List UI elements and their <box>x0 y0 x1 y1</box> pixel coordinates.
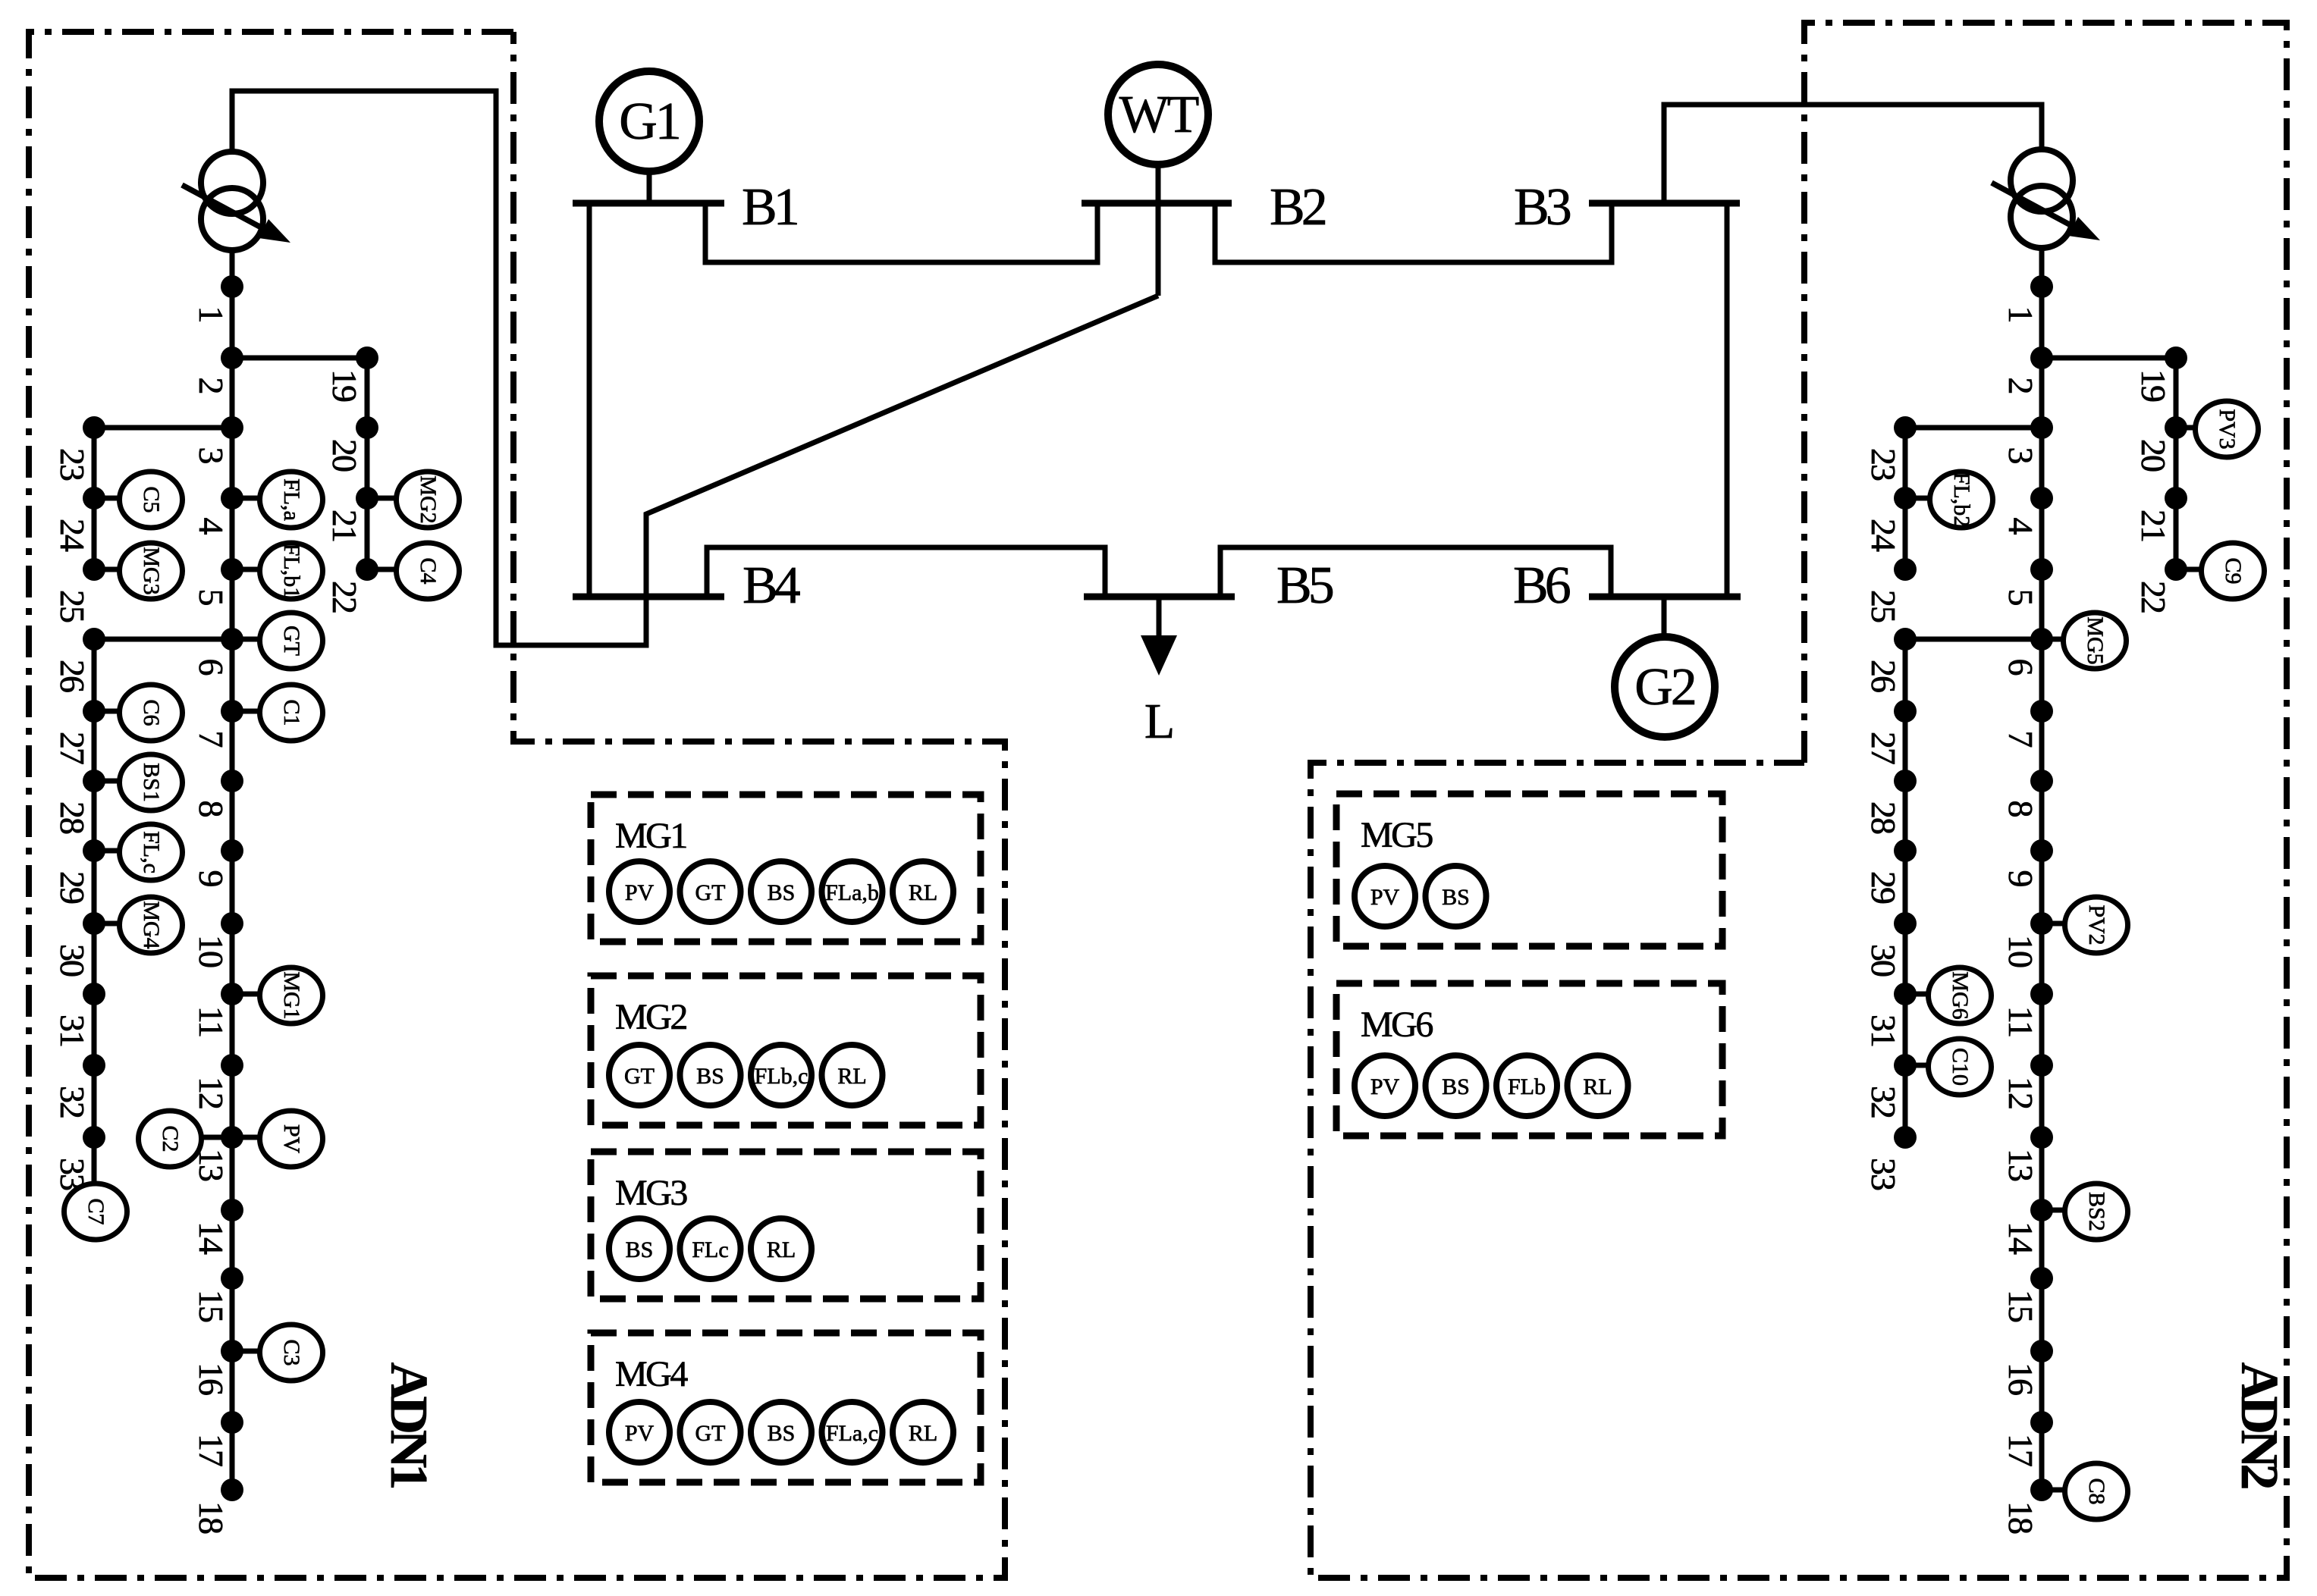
svg-text:FL,c: FL,c <box>139 831 164 873</box>
node 23 <box>83 416 105 439</box>
svg-text:BS: BS <box>768 880 796 905</box>
svg-text:BS1: BS1 <box>139 763 164 802</box>
node 9 <box>221 839 243 862</box>
node 18 <box>221 1478 243 1501</box>
wire B3 to ADN2 feed <box>1664 105 2042 203</box>
svg-text:MG4: MG4 <box>139 901 164 949</box>
node 4 <box>221 487 243 510</box>
node 20 <box>2165 416 2187 439</box>
svg-text:20: 20 <box>2134 439 2173 472</box>
wire tie B3-B6 <box>1725 203 1730 597</box>
svg-text:10: 10 <box>2001 935 2040 967</box>
node 22 <box>356 558 378 581</box>
svg-text:28: 28 <box>1864 801 1903 834</box>
svg-text:11: 11 <box>192 1006 231 1036</box>
svg-text:8: 8 <box>192 801 231 817</box>
svg-text:27: 27 <box>53 732 92 764</box>
svg-text:19: 19 <box>325 369 364 402</box>
node 12 <box>221 1054 243 1077</box>
node 7 <box>221 700 243 723</box>
node 30 <box>1894 912 1917 935</box>
svg-text:16: 16 <box>192 1362 231 1395</box>
svg-text:22: 22 <box>325 581 364 613</box>
wire node2 to node19 <box>232 356 367 361</box>
svg-text:FLa,c: FLa,c <box>826 1421 878 1446</box>
svg-text:17: 17 <box>2001 1434 2040 1466</box>
ADN2 region dash-dot boundary <box>1311 23 2287 1578</box>
load FL,b1 at node 5 <box>260 543 323 599</box>
component C3 at node 16 <box>260 1325 323 1381</box>
node 6 <box>2030 628 2053 651</box>
svg-text:28: 28 <box>53 801 92 834</box>
node 21 <box>356 487 378 510</box>
microgrid MG5 detail box <box>1336 794 1722 946</box>
component C10 at node 32 <box>1929 1039 1992 1095</box>
bus B5 <box>1084 594 1235 600</box>
svg-text:4: 4 <box>2001 518 2040 535</box>
node 33 <box>83 1126 105 1149</box>
wire node3 to node23 <box>94 425 232 431</box>
svg-text:5: 5 <box>192 589 231 606</box>
wire tie B1-B4 <box>587 203 592 597</box>
wire tie B2-B3 <box>1215 203 1612 262</box>
microgrid MG6 detail box <box>1336 983 1722 1136</box>
node 11 <box>221 983 243 1005</box>
node 11 <box>2030 983 2053 1005</box>
node 32 <box>83 1054 105 1077</box>
node 17 <box>2030 1411 2053 1434</box>
svg-text:C6: C6 <box>139 699 164 726</box>
node 5 <box>221 558 243 581</box>
bus B3 <box>1589 200 1740 207</box>
node 28 <box>83 770 105 792</box>
node 2 <box>2030 346 2053 369</box>
wire branch 19-22 <box>365 358 370 569</box>
component C1 at node 7 <box>260 685 323 741</box>
svg-text:26: 26 <box>53 660 92 692</box>
microgrid MG3 at node 25 <box>120 543 183 599</box>
wire B2 diagonal to B4 and ADN1 feed <box>232 91 1158 645</box>
node 28 <box>1894 770 1917 792</box>
svg-text:1: 1 <box>2001 306 2040 322</box>
svg-text:PV2: PV2 <box>2084 905 2109 945</box>
svg-text:15: 15 <box>2001 1290 2040 1322</box>
svg-text:16: 16 <box>2001 1362 2040 1395</box>
svg-text:14: 14 <box>192 1221 231 1255</box>
svg-text:PV: PV <box>279 1124 304 1154</box>
svg-text:21: 21 <box>325 510 364 541</box>
svg-text:B2: B2 <box>1270 178 1326 237</box>
svg-text:PV: PV <box>1370 1074 1400 1099</box>
load FL,a at node 4 <box>260 472 323 528</box>
wire branch 23-25 <box>92 428 97 569</box>
wire tie B4-B5 <box>707 547 1105 597</box>
svg-text:9: 9 <box>192 870 231 887</box>
microgrid MG2 at node 21 <box>397 472 460 528</box>
svg-text:BS: BS <box>696 1064 724 1089</box>
svg-text:22: 22 <box>2134 581 2173 613</box>
svg-text:C2: C2 <box>158 1125 183 1152</box>
svg-text:C8: C8 <box>2084 1478 2109 1504</box>
wire node6 to node26 <box>94 637 232 642</box>
component C4 at node 22 <box>397 543 460 599</box>
svg-text:29: 29 <box>53 871 92 904</box>
svg-text:FL,b1: FL,b1 <box>279 544 304 599</box>
svg-text:18: 18 <box>2001 1501 2040 1534</box>
svg-text:C9: C9 <box>2221 557 2246 584</box>
svg-text:MG6: MG6 <box>1361 1005 1433 1045</box>
svg-text:BS: BS <box>1442 1074 1470 1099</box>
node 33 <box>1894 1126 1917 1149</box>
svg-text:BS: BS <box>626 1237 654 1262</box>
svg-text:MG6: MG6 <box>1948 971 1973 1019</box>
node 26 <box>83 628 105 651</box>
svg-text:MG5: MG5 <box>2083 616 2108 664</box>
svg-text:C1: C1 <box>279 699 304 726</box>
node 29 <box>1894 839 1917 862</box>
node 16 <box>221 1340 243 1362</box>
svg-text:RL: RL <box>909 1421 937 1446</box>
wire main feeder nodes 1-18 <box>2039 287 2045 1490</box>
wire tie B1-B2 <box>705 203 1097 262</box>
svg-text:MG3: MG3 <box>615 1173 687 1213</box>
svg-text:MG2: MG2 <box>615 997 686 1037</box>
node 31 <box>83 983 105 1005</box>
microgrid MG1 at node 11 <box>260 967 323 1024</box>
svg-text:FLc: FLc <box>692 1237 728 1262</box>
node 20 <box>356 416 378 439</box>
node 16 <box>2030 1340 2053 1362</box>
svg-text:L: L <box>1144 694 1175 749</box>
bus B4 <box>573 594 724 600</box>
svg-text:25: 25 <box>1864 590 1903 622</box>
svg-text:PV: PV <box>625 1421 655 1446</box>
node 24 <box>1894 487 1917 510</box>
photovoltaic PV2 at node 10 <box>2065 897 2128 953</box>
svg-text:18: 18 <box>192 1501 231 1534</box>
node 6 <box>221 628 243 651</box>
svg-text:RL: RL <box>909 880 937 905</box>
svg-text:B4: B4 <box>743 557 800 615</box>
node 22 <box>2165 558 2187 581</box>
node 5 <box>2030 558 2053 581</box>
component C9 at node 22 <box>2202 543 2265 599</box>
svg-text:29: 29 <box>1864 871 1903 904</box>
svg-text:WT: WT <box>1119 86 1199 144</box>
wire node3 to node23 <box>1905 425 2042 431</box>
transformer T2 (ADN2) <box>1992 149 2100 248</box>
node 29 <box>83 839 105 862</box>
node 19 <box>2165 346 2187 369</box>
wire T2 to node 1 <box>2039 249 2045 287</box>
gas turbine GT at node 6 <box>260 613 323 669</box>
svg-text:G1: G1 <box>619 92 680 151</box>
wire tie B5-B6 <box>1220 547 1611 597</box>
svg-text:11: 11 <box>2001 1006 2040 1036</box>
svg-text:MG1: MG1 <box>279 971 304 1019</box>
node 21 <box>2165 487 2187 510</box>
bus B1 <box>573 200 724 207</box>
node 1 <box>221 275 243 298</box>
wire G2 stub to B6 <box>1662 597 1667 634</box>
node 23 <box>1894 416 1917 439</box>
wire node6 to node26 <box>1905 637 2042 642</box>
node 15 <box>2030 1267 2053 1290</box>
svg-text:13: 13 <box>2001 1149 2040 1181</box>
svg-text:32: 32 <box>53 1086 92 1118</box>
svg-text:G2: G2 <box>1634 658 1695 716</box>
microgrid MG2 detail box <box>591 976 981 1125</box>
wire main feeder nodes 1-18 <box>230 287 235 1490</box>
svg-text:12: 12 <box>192 1077 231 1108</box>
svg-text:31: 31 <box>53 1014 92 1046</box>
svg-text:FLb,c: FLb,c <box>755 1064 808 1089</box>
svg-text:26: 26 <box>1864 660 1903 692</box>
svg-text:1: 1 <box>192 306 231 322</box>
svg-text:7: 7 <box>192 731 231 748</box>
svg-text:MG3: MG3 <box>139 547 164 594</box>
microgrid MG4 detail box <box>591 1333 981 1482</box>
svg-text:32: 32 <box>1864 1086 1903 1118</box>
svg-text:B6: B6 <box>1513 557 1570 615</box>
svg-text:FL,b2: FL,b2 <box>1949 472 1974 528</box>
wire branch 19-22 <box>2174 358 2179 569</box>
node 8 <box>2030 770 2053 792</box>
node 10 <box>2030 912 2053 935</box>
svg-text:FLa,b: FLa,b <box>825 880 879 905</box>
svg-text:3: 3 <box>2001 447 2040 464</box>
svg-text:FL,a: FL,a <box>279 478 304 521</box>
load L arrow <box>1157 597 1162 638</box>
svg-text:C4: C4 <box>416 557 441 584</box>
svg-text:14: 14 <box>2001 1221 2040 1255</box>
battery BS2 at node 14 <box>2065 1184 2128 1240</box>
svg-text:ADN1: ADN1 <box>379 1362 438 1488</box>
component C8 at node 18 <box>2065 1463 2128 1519</box>
bus B6 <box>1589 594 1741 600</box>
node 3 <box>221 416 243 439</box>
svg-text:C7: C7 <box>83 1198 108 1224</box>
svg-text:23: 23 <box>53 448 92 481</box>
ADN1 region dash-dot boundary <box>29 32 1005 1578</box>
node 15 <box>221 1267 243 1290</box>
node 31 <box>1894 983 1917 1005</box>
svg-text:30: 30 <box>1864 944 1903 977</box>
node 14 <box>2030 1199 2053 1221</box>
node 25 <box>83 558 105 581</box>
svg-text:21: 21 <box>2134 510 2173 541</box>
svg-text:GT: GT <box>279 626 304 656</box>
svg-text:PV: PV <box>1370 885 1400 910</box>
svg-text:8: 8 <box>2001 801 2040 817</box>
svg-text:BS: BS <box>768 1421 796 1446</box>
node 4 <box>2030 487 2053 510</box>
svg-text:B5: B5 <box>1276 557 1333 615</box>
wind turbine WT circle <box>1108 64 1208 165</box>
svg-text:15: 15 <box>192 1290 231 1322</box>
transformer T1 (ADN1) <box>182 152 290 250</box>
battery BS1 at node 28 <box>120 754 183 811</box>
node 25 <box>1894 558 1917 581</box>
svg-text:23: 23 <box>1864 448 1903 481</box>
node 13 <box>2030 1126 2053 1149</box>
svg-text:4: 4 <box>192 518 231 535</box>
svg-text:MG1: MG1 <box>615 816 686 856</box>
svg-text:6: 6 <box>192 659 231 676</box>
svg-text:2: 2 <box>192 378 231 394</box>
svg-text:C5: C5 <box>139 486 164 513</box>
node 8 <box>221 770 243 792</box>
svg-text:MG2: MG2 <box>416 475 441 523</box>
svg-text:B1: B1 <box>742 178 797 237</box>
microgrid MG5 at node 6 <box>2064 613 2127 669</box>
component C5 at node 24 <box>120 472 183 528</box>
svg-text:2: 2 <box>2001 378 2040 394</box>
wire branch 26-33 <box>1903 639 1908 1137</box>
svg-text:ADN2: ADN2 <box>2230 1362 2288 1488</box>
node 2 <box>221 346 243 369</box>
generator G1 circle <box>599 71 699 171</box>
svg-text:27: 27 <box>1864 732 1903 764</box>
svg-text:MG4: MG4 <box>615 1354 688 1394</box>
load FL,c at node 29 <box>120 824 183 880</box>
svg-text:33: 33 <box>1864 1158 1903 1190</box>
svg-text:30: 30 <box>53 944 92 977</box>
wire node 33 to C7 <box>92 1137 97 1181</box>
svg-text:12: 12 <box>2001 1077 2040 1108</box>
microgrid MG6 at node 31 <box>1929 967 1992 1024</box>
svg-text:20: 20 <box>325 439 364 472</box>
svg-text:GT: GT <box>624 1064 655 1089</box>
svg-text:19: 19 <box>2134 369 2173 402</box>
node 30 <box>83 912 105 935</box>
svg-text:10: 10 <box>192 935 231 967</box>
bus B2 <box>1082 200 1232 207</box>
svg-text:BS: BS <box>1442 885 1470 910</box>
node 19 <box>356 346 378 369</box>
svg-text:GT: GT <box>695 1421 726 1446</box>
svg-text:BS2: BS2 <box>2084 1192 2109 1231</box>
svg-text:17: 17 <box>192 1434 231 1466</box>
svg-text:RL: RL <box>837 1064 866 1089</box>
svg-text:FLb: FLb <box>1508 1074 1546 1099</box>
svg-text:6: 6 <box>2001 659 2040 676</box>
node 26 <box>1894 628 1917 651</box>
svg-text:7: 7 <box>2001 731 2040 748</box>
svg-text:GT: GT <box>695 880 726 905</box>
component C7 below node 33 <box>64 1184 127 1240</box>
microgrid MG3 detail box <box>591 1152 981 1299</box>
svg-text:MG5: MG5 <box>1361 815 1433 855</box>
node 9 <box>2030 839 2053 862</box>
svg-text:C10: C10 <box>1948 1048 1973 1086</box>
wire G1 stub to B1 <box>647 174 652 203</box>
svg-text:24: 24 <box>53 519 92 552</box>
component C2 at node 13 <box>139 1111 202 1167</box>
load FL,b2 at node 24 <box>1930 472 1993 528</box>
wire branch 23-25 <box>1903 428 1908 569</box>
svg-text:24: 24 <box>1864 519 1903 552</box>
photovoltaic PV3 at node 20 <box>2196 401 2259 457</box>
node 12 <box>2030 1054 2053 1077</box>
wire WT stub through B2 <box>1156 168 1161 296</box>
node 27 <box>1894 700 1917 723</box>
svg-text:RL: RL <box>1583 1074 1612 1099</box>
wire node2 to node19 <box>2042 356 2176 361</box>
node 32 <box>1894 1054 1917 1077</box>
wire branch 26-33 <box>92 639 97 1137</box>
svg-text:3: 3 <box>192 447 231 464</box>
svg-text:31: 31 <box>1864 1014 1903 1046</box>
svg-text:C3: C3 <box>279 1339 304 1366</box>
node 17 <box>221 1411 243 1434</box>
node 7 <box>2030 700 2053 723</box>
svg-text:PV: PV <box>625 880 655 905</box>
node 13 <box>221 1126 243 1149</box>
generator G2 circle <box>1615 637 1715 737</box>
node 18 <box>2030 1478 2053 1501</box>
node 14 <box>221 1199 243 1221</box>
node 24 <box>83 487 105 510</box>
svg-text:5: 5 <box>2001 589 2040 606</box>
wire T1 to node 1 <box>230 252 235 287</box>
microgrid MG4 at node 30 <box>120 897 183 953</box>
svg-text:PV3: PV3 <box>2215 409 2240 449</box>
svg-text:B3: B3 <box>1514 178 1571 237</box>
photovoltaic PV at node 13 <box>260 1111 323 1167</box>
node 3 <box>2030 416 2053 439</box>
svg-text:9: 9 <box>2001 870 2040 887</box>
microgrid MG1 detail box <box>591 795 981 942</box>
node 10 <box>221 912 243 935</box>
svg-text:25: 25 <box>53 590 92 622</box>
node 1 <box>2030 275 2053 298</box>
component C6 at node 27 <box>120 685 183 741</box>
svg-text:RL: RL <box>767 1237 796 1262</box>
node 27 <box>83 700 105 723</box>
